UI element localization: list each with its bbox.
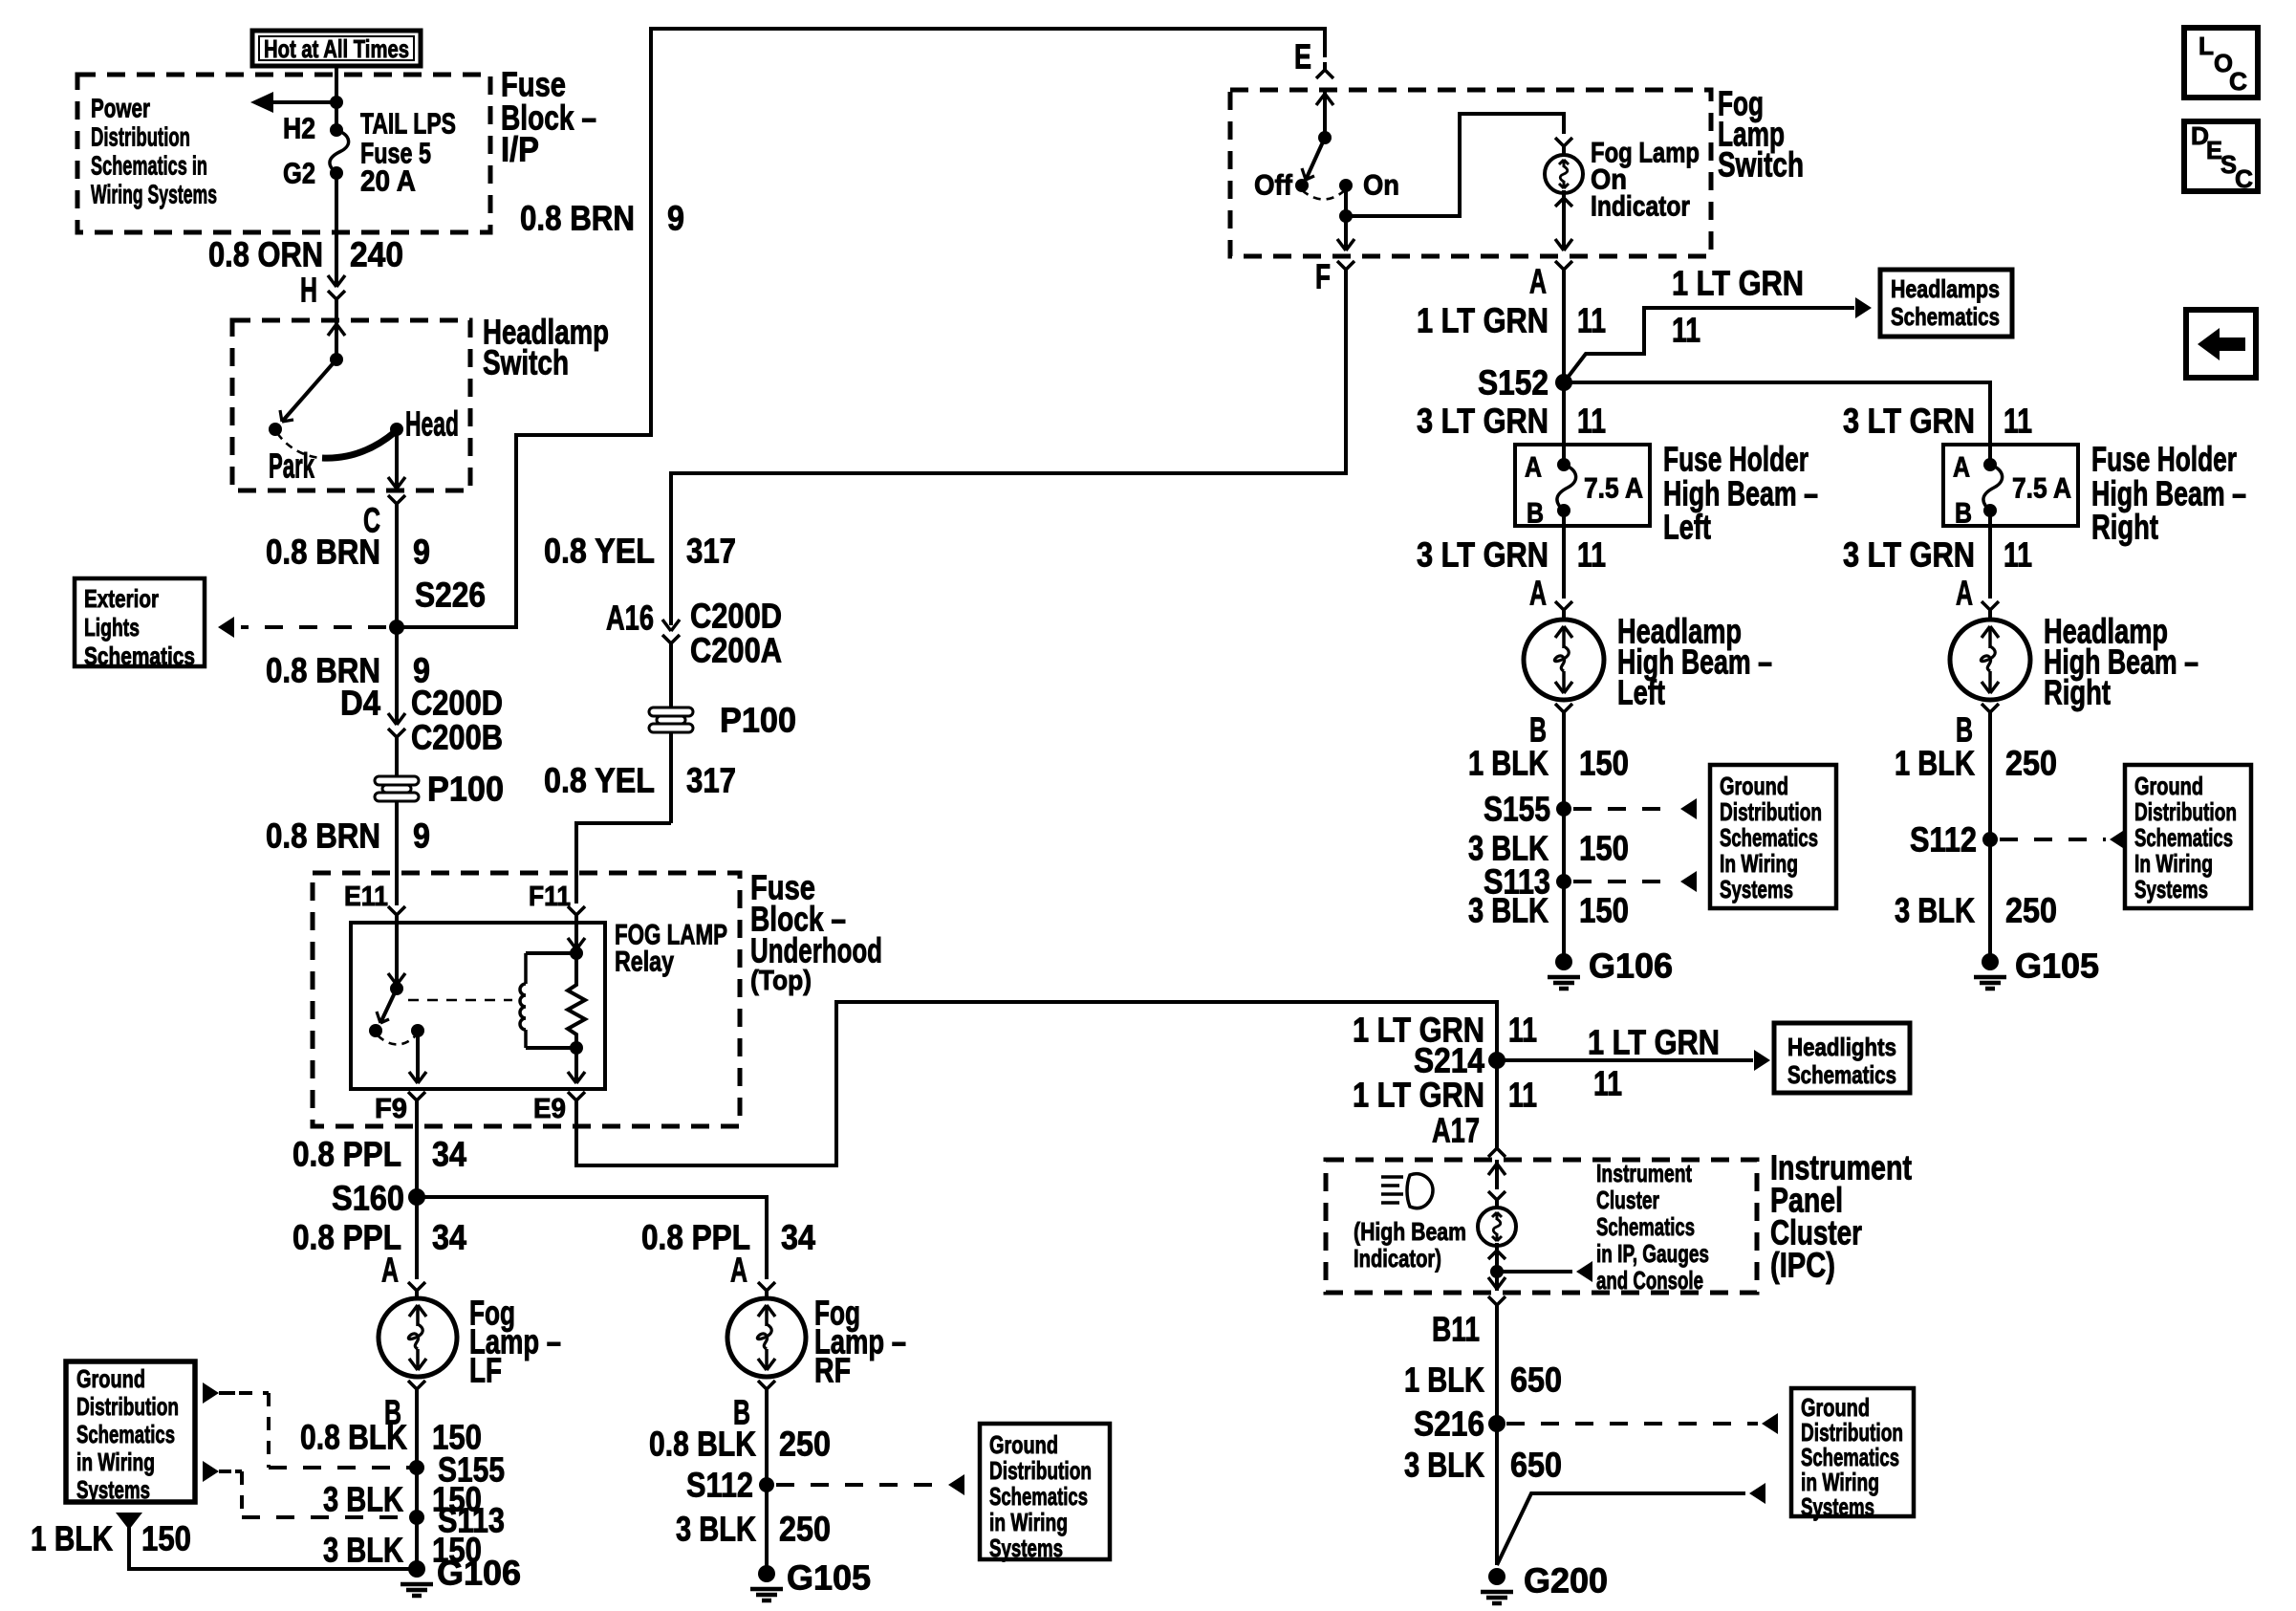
svg-text:150: 150	[1579, 891, 1629, 930]
svg-text:C200A: C200A	[690, 631, 782, 670]
svg-text:0.8 BRN: 0.8 BRN	[266, 533, 380, 572]
svg-text:Left: Left	[1617, 673, 1665, 712]
svg-text:F: F	[1315, 257, 1331, 296]
svg-text:S226: S226	[415, 576, 486, 615]
svg-text:3 LT GRN: 3 LT GRN	[1417, 535, 1549, 575]
svg-text:Schematics: Schematics	[76, 1420, 175, 1448]
svg-text:Distribution: Distribution	[91, 122, 190, 152]
svg-text:H2: H2	[283, 112, 315, 145]
svg-text:S155: S155	[1484, 790, 1550, 829]
svg-text:In Wiring: In Wiring	[1720, 849, 1798, 878]
svg-text:In Wiring: In Wiring	[2134, 849, 2213, 878]
svg-text:150: 150	[1579, 744, 1629, 783]
svg-text:Schematics: Schematics	[1787, 1060, 1896, 1089]
svg-text:Left: Left	[1663, 508, 1711, 547]
svg-text:3 BLK: 3 BLK	[1468, 891, 1549, 930]
svg-text:Distribution: Distribution	[76, 1392, 179, 1421]
svg-text:A: A	[1525, 452, 1542, 484]
svg-text:11: 11	[1577, 402, 1606, 441]
svg-text:in IP, Gauges: in IP, Gauges	[1596, 1239, 1709, 1268]
svg-text:317: 317	[686, 532, 736, 571]
svg-text:250: 250	[779, 1425, 831, 1464]
svg-text:3 LT GRN: 3 LT GRN	[1843, 402, 1975, 441]
svg-text:E11: E11	[344, 882, 388, 912]
svg-text:Schematics: Schematics	[84, 642, 195, 670]
svg-text:RF: RF	[814, 1351, 851, 1390]
svg-text:1 LT GRN: 1 LT GRN	[1417, 301, 1549, 340]
svg-text:Headlights: Headlights	[1787, 1033, 1896, 1061]
svg-text:(IPC): (IPC)	[1770, 1246, 1835, 1285]
svg-text:250: 250	[779, 1510, 831, 1549]
svg-text:Schematics: Schematics	[1891, 302, 2000, 331]
svg-text:11: 11	[2004, 402, 2032, 441]
svg-text:Off: Off	[1254, 170, 1293, 202]
svg-text:Fuse Holder: Fuse Holder	[1663, 440, 1809, 479]
svg-text:I/P: I/P	[501, 130, 539, 169]
svg-text:1 BLK: 1 BLK	[1468, 744, 1549, 783]
svg-text:20 A: 20 A	[360, 164, 416, 198]
svg-text:Ground: Ground	[989, 1430, 1058, 1459]
svg-text:Park: Park	[269, 446, 315, 486]
svg-text:Headlamps: Headlamps	[1891, 274, 2000, 303]
svg-text:C: C	[2229, 67, 2247, 96]
svg-text:A17: A17	[1432, 1111, 1480, 1150]
svg-text:H: H	[300, 271, 317, 310]
svg-text:S112: S112	[686, 1466, 753, 1505]
svg-text:C200D: C200D	[690, 597, 782, 636]
svg-text:Right: Right	[2044, 673, 2111, 712]
svg-text:Schematics: Schematics	[1596, 1212, 1695, 1241]
svg-text:Systems: Systems	[1720, 875, 1793, 903]
svg-text:in Wiring: in Wiring	[989, 1508, 1068, 1536]
svg-text:Schematics in: Schematics in	[91, 151, 207, 181]
svg-text:B: B	[1955, 498, 1972, 530]
svg-text:Relay: Relay	[615, 947, 674, 978]
svg-text:Ground: Ground	[1720, 772, 1788, 800]
svg-text:Cluster: Cluster	[1596, 1186, 1659, 1214]
svg-text:F11: F11	[529, 882, 571, 912]
svg-text:and Console: and Console	[1596, 1266, 1703, 1295]
svg-text:F9: F9	[375, 1094, 407, 1124]
svg-text:Schematics: Schematics	[989, 1482, 1088, 1511]
svg-text:0.8 BLK: 0.8 BLK	[300, 1418, 407, 1457]
svg-text:P100: P100	[720, 701, 796, 740]
svg-text:1 LT GRN: 1 LT GRN	[1672, 264, 1804, 303]
svg-text:650: 650	[1510, 1361, 1562, 1400]
svg-text:Indicator: Indicator	[1591, 191, 1690, 223]
svg-text:E: E	[1294, 37, 1311, 76]
svg-text:3 LT GRN: 3 LT GRN	[1417, 402, 1549, 441]
svg-text:S214: S214	[1414, 1041, 1484, 1080]
svg-text:Distribution: Distribution	[2134, 797, 2237, 826]
svg-text:3 BLK: 3 BLK	[1404, 1446, 1484, 1485]
svg-text:Switch: Switch	[483, 343, 569, 382]
svg-text:9: 9	[413, 533, 430, 572]
svg-text:3 LT GRN: 3 LT GRN	[1843, 535, 1975, 575]
svg-text:A: A	[730, 1251, 747, 1290]
svg-text:(High Beam: (High Beam	[1354, 1217, 1466, 1246]
svg-text:3 BLK: 3 BLK	[1895, 891, 1975, 930]
svg-text:A: A	[1529, 262, 1547, 301]
svg-text:D4: D4	[340, 684, 380, 723]
svg-text:0.8 BRN: 0.8 BRN	[520, 199, 635, 238]
svg-text:S112: S112	[1910, 820, 1977, 860]
svg-text:Distribution: Distribution	[989, 1456, 1092, 1485]
svg-text:9: 9	[413, 816, 430, 856]
svg-text:Systems: Systems	[76, 1475, 150, 1504]
svg-text:E9: E9	[533, 1094, 566, 1124]
svg-text:B11: B11	[1432, 1310, 1480, 1349]
svg-text:Fuse Holder: Fuse Holder	[2091, 440, 2237, 479]
svg-text:9: 9	[667, 199, 684, 238]
svg-text:Indicator): Indicator)	[1354, 1244, 1441, 1273]
svg-text:Wiring Systems: Wiring Systems	[91, 180, 217, 209]
svg-text:S160: S160	[332, 1179, 404, 1218]
svg-text:11: 11	[1508, 1011, 1537, 1050]
svg-text:Switch: Switch	[1718, 145, 1804, 185]
svg-text:Systems: Systems	[989, 1534, 1063, 1562]
svg-text:7.5 A: 7.5 A	[1584, 473, 1643, 505]
svg-text:3 BLK: 3 BLK	[323, 1480, 403, 1519]
svg-text:A: A	[381, 1251, 399, 1290]
svg-text:0.8 YEL: 0.8 YEL	[544, 532, 655, 571]
svg-text:34: 34	[432, 1135, 466, 1174]
svg-text:(Top): (Top)	[750, 966, 812, 996]
svg-text:Schematics: Schematics	[1720, 823, 1818, 852]
svg-text:in Wiring: in Wiring	[76, 1448, 155, 1476]
svg-text:317: 317	[686, 761, 736, 800]
svg-text:3 BLK: 3 BLK	[323, 1531, 403, 1570]
svg-text:1 BLK: 1 BLK	[1895, 744, 1975, 783]
svg-text:G200: G200	[1524, 1561, 1608, 1600]
svg-text:C200D: C200D	[411, 684, 503, 723]
svg-text:250: 250	[2005, 891, 2057, 930]
svg-text:Schematics: Schematics	[2134, 823, 2233, 852]
svg-text:A16: A16	[606, 599, 654, 638]
svg-text:P100: P100	[427, 770, 504, 809]
svg-text:Systems: Systems	[2134, 875, 2208, 903]
svg-text:Underhood: Underhood	[750, 931, 882, 970]
svg-text:Head: Head	[405, 404, 459, 444]
svg-text:G106: G106	[1589, 947, 1673, 986]
svg-text:0.8 BRN: 0.8 BRN	[266, 816, 380, 856]
svg-text:1 BLK: 1 BLK	[1404, 1361, 1484, 1400]
svg-text:11: 11	[1577, 535, 1606, 575]
svg-text:240: 240	[350, 235, 403, 274]
svg-text:250: 250	[2005, 744, 2057, 783]
svg-text:Hot at All Times: Hot at All Times	[264, 34, 409, 63]
svg-text:34: 34	[432, 1218, 466, 1257]
svg-text:A: A	[1956, 574, 1973, 613]
svg-text:S216: S216	[1414, 1404, 1484, 1444]
svg-text:G105: G105	[2015, 947, 2099, 986]
svg-text:1 LT GRN: 1 LT GRN	[1353, 1076, 1484, 1115]
svg-text:S152: S152	[1478, 363, 1549, 403]
svg-text:A: A	[1529, 574, 1547, 613]
svg-text:11: 11	[1593, 1064, 1622, 1103]
svg-text:3 BLK: 3 BLK	[676, 1510, 756, 1549]
svg-text:L: L	[2199, 32, 2214, 60]
svg-text:LF: LF	[469, 1351, 502, 1390]
svg-text:34: 34	[781, 1218, 815, 1257]
svg-text:Exterior: Exterior	[84, 584, 159, 613]
svg-text:0.8 YEL: 0.8 YEL	[544, 761, 655, 800]
svg-text:C: C	[2235, 164, 2253, 193]
svg-text:B: B	[1527, 498, 1544, 530]
svg-text:Lights: Lights	[84, 613, 140, 642]
svg-text:G105: G105	[787, 1558, 871, 1598]
svg-text:1 BLK: 1 BLK	[31, 1519, 113, 1558]
svg-text:11: 11	[2004, 535, 2032, 575]
svg-text:11: 11	[1577, 301, 1606, 340]
svg-text:0.8 PPL: 0.8 PPL	[292, 1135, 401, 1174]
svg-text:Ground: Ground	[2134, 772, 2203, 800]
svg-text:On: On	[1363, 170, 1399, 202]
svg-text:Right: Right	[2091, 508, 2158, 547]
svg-text:TAIL LPS: TAIL LPS	[360, 107, 456, 141]
svg-text:Power: Power	[91, 94, 150, 123]
svg-text:150: 150	[141, 1519, 191, 1558]
svg-text:Systems: Systems	[1801, 1492, 1874, 1521]
svg-text:0.8 BLK: 0.8 BLK	[649, 1425, 756, 1464]
svg-text:Distribution: Distribution	[1720, 797, 1822, 826]
svg-text:7.5 A: 7.5 A	[2012, 473, 2071, 505]
svg-text:G106: G106	[437, 1554, 521, 1593]
svg-text:11: 11	[1508, 1076, 1537, 1115]
svg-text:11: 11	[1672, 311, 1700, 350]
svg-text:G2: G2	[283, 157, 315, 190]
svg-text:650: 650	[1510, 1446, 1562, 1485]
svg-text:Instrument: Instrument	[1596, 1159, 1692, 1187]
svg-text:A: A	[1953, 452, 1970, 484]
svg-text:1 LT GRN: 1 LT GRN	[1588, 1023, 1720, 1062]
svg-text:0.8 ORN: 0.8 ORN	[208, 235, 323, 274]
svg-text:150: 150	[1579, 829, 1629, 868]
svg-text:C200B: C200B	[411, 718, 503, 757]
svg-text:Ground: Ground	[76, 1364, 145, 1393]
